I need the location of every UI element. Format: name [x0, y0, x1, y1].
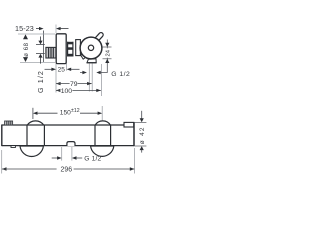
svg-text:296: 296	[61, 166, 73, 173]
svg-text:150: 150	[60, 110, 71, 117]
svg-text:100: 100	[61, 88, 73, 95]
svg-text:25: 25	[58, 67, 66, 74]
svg-text:G 1/2: G 1/2	[36, 70, 45, 93]
svg-text:24: 24	[105, 49, 111, 56]
svg-text:±12: ±12	[71, 108, 80, 114]
svg-text:ø 42: ø 42	[139, 126, 146, 144]
svg-text:G 1/2: G 1/2	[84, 155, 101, 162]
svg-text:G 1/2: G 1/2	[111, 71, 130, 78]
svg-text:15-23: 15-23	[15, 24, 34, 33]
svg-text:ø 68: ø 68	[24, 42, 30, 56]
